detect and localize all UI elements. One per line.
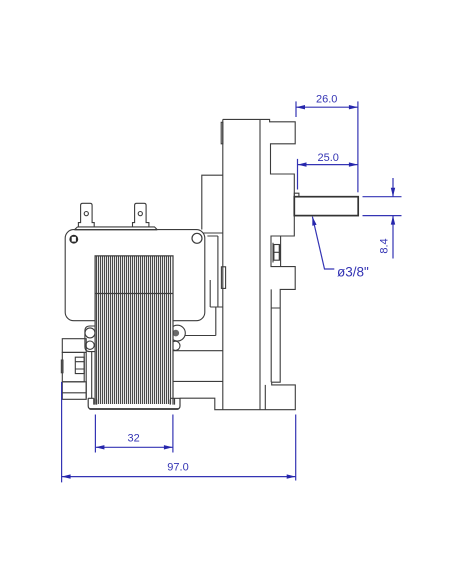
gearbox inner vertical line bottom <box>264 385 266 410</box>
clip inner detail right side <box>273 236 281 267</box>
rear housing main block <box>62 352 84 381</box>
arrowheads 25.0 <box>298 162 307 166</box>
lamination stack fill <box>95 256 173 405</box>
column inner rung <box>271 289 280 382</box>
svg-text:97.0: 97.0 <box>167 462 188 474</box>
arrowheads 32 <box>95 445 104 449</box>
gearbox rear boss above terminal box <box>202 175 223 233</box>
arrowheads 26.0 <box>296 105 305 109</box>
spade terminal 1 <box>78 203 94 227</box>
arrowheads 8.4 <box>391 188 395 197</box>
gearbox side small tab left edge <box>221 267 225 289</box>
rear housing top block <box>62 339 86 353</box>
rear shaft end cap <box>61 360 63 373</box>
dim 25.0 extension left <box>297 159 299 190</box>
dim 32 extension lines <box>95 415 172 453</box>
lamination band line <box>95 293 173 295</box>
gearbox top-left thin tab <box>221 122 223 144</box>
gearbox outline <box>180 119 295 409</box>
arrowheads 97.0 <box>62 474 71 478</box>
dim 26.0 line <box>296 106 358 108</box>
right bracket hole <box>173 330 180 337</box>
spade terminal 2 <box>133 203 149 227</box>
svg-text:26.0: 26.0 <box>316 93 337 105</box>
motor end-shield edges between rear housing and stack <box>86 352 92 399</box>
dim 8.4 extension top <box>363 196 402 198</box>
hole right on box <box>192 233 202 243</box>
screw head left on box <box>69 235 78 244</box>
connection lines motor to gearbox <box>171 336 223 382</box>
svg-text:8.4: 8.4 <box>379 238 391 253</box>
svg-text:25.0: 25.0 <box>317 152 338 164</box>
motor foot <box>88 398 180 409</box>
svg-text:ø3/8": ø3/8" <box>337 265 369 280</box>
blue dimensions <box>62 101 402 482</box>
left bracket hole upper <box>85 328 95 338</box>
leader arrowhead <box>312 217 316 226</box>
terminal bar under spade terminals <box>74 227 157 230</box>
dim 8.4 extension bottom <box>363 215 402 217</box>
dim 8.4 tails <box>392 178 394 259</box>
right bracket outer lobe <box>170 325 186 341</box>
right bracket lower lobe <box>171 341 180 350</box>
shaft <box>294 197 358 216</box>
dim right shared extension <box>357 101 359 192</box>
shaft shoulder <box>294 193 299 197</box>
leader line for shaft diameter <box>312 217 334 269</box>
hex nut <box>75 357 84 373</box>
lamination stack outline <box>95 256 173 405</box>
svg-text:32: 32 <box>127 433 139 445</box>
dim 97.0 extension lines <box>62 382 296 482</box>
terminal box (capacitor cover) <box>65 230 205 321</box>
rear housing lower block <box>62 382 86 400</box>
gearbox rear housing lines behind box right edge <box>207 236 222 336</box>
gearbox inner vertical line <box>259 119 261 409</box>
dim 25.0 line <box>298 164 358 166</box>
dim 26.0 extension left <box>295 101 297 117</box>
dim 32 line <box>95 446 172 448</box>
left bracket hole lower <box>86 341 94 349</box>
dim 97.0 line <box>62 476 296 478</box>
left bracket stadium <box>85 326 95 352</box>
foot notches <box>94 398 175 404</box>
